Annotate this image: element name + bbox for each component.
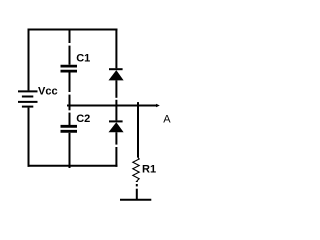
wire capacitor branch middle: [69, 73, 71, 105]
wire bottom rail: [28, 165, 118, 167]
diode D1: [109, 69, 124, 80]
wire capacitor branch bottom: [69, 133, 71, 168]
wire diode branch below D2: [115, 132, 117, 167]
ground: [120, 199, 151, 201]
svg-text:A: A: [163, 113, 171, 125]
resistor R1 zigzag: [133, 158, 139, 181]
wire left rail upper: [28, 29, 30, 91]
svg-text:Vcc: Vcc: [38, 85, 58, 97]
svg-text:C1: C1: [76, 52, 90, 64]
wire diode branch between D1 and node: [115, 80, 117, 104]
wire capacitor branch top: [69, 30, 71, 65]
wire left rail lower: [28, 108, 30, 167]
battery Vcc: [18, 91, 38, 106]
wire diode branch top: [115, 30, 117, 69]
capacitor C1: [61, 66, 78, 71]
wire capacitor branch below node: [69, 107, 71, 126]
wire top rail: [28, 29, 118, 31]
wire diode branch node to D2: [115, 107, 117, 121]
wire R1 branch: [137, 102, 139, 158]
svg-text:C2: C2: [76, 113, 90, 125]
diode D2: [109, 121, 124, 132]
svg-text:R1: R1: [142, 164, 156, 176]
wire R1 to ground dashes: [136, 181, 138, 199]
node A wire with arrow: [67, 105, 157, 107]
node A arrowhead: [156, 104, 160, 108]
capacitor C2: [61, 126, 78, 131]
